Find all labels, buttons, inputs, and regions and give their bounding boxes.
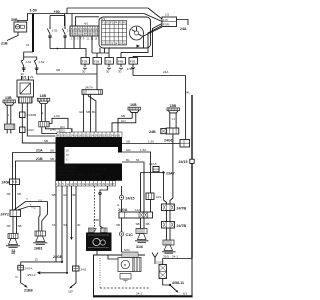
top wire run B (33, 8, 144, 14)
wires to ground G4 (167, 228, 171, 240)
arrow to 21/7 (170, 285, 176, 291)
svg-text:24/7B: 24/7B (177, 207, 187, 211)
siren module 4/28 (86, 218, 112, 251)
svg-text:21B: 21B (36, 157, 43, 161)
svg-text:5/1: 5/1 (101, 17, 106, 21)
A1 stub 2 (79, 36, 81, 44)
svg-text:24Y2: 24Y2 (1, 213, 9, 217)
positive feed bus right (191, 95, 193, 259)
svg-text:GN: GN (60, 125, 65, 129)
svg-text:F2B: F2B (94, 60, 100, 64)
svg-text:24A: 24A (180, 27, 187, 31)
fuse F4 (117, 52, 125, 69)
fuse F5 (127, 56, 138, 75)
svg-text:17: 17 (109, 139, 113, 143)
wire C1C down (121, 236, 123, 252)
siren drive motor M (118, 248, 141, 282)
diagonal wire run B to U1 (144, 14, 162, 22)
svg-text:23A7: 23A7 (166, 172, 175, 176)
inline connector 24/10 (20, 112, 36, 118)
wire H3 pin2 to ECU (112, 118, 136, 132)
svg-text:24/2: 24/2 (81, 267, 87, 271)
svg-text:4/54-2: 4/54-2 (27, 273, 36, 277)
ECU top pin row (50, 128, 122, 138)
wire C5C to junction 4/58 (163, 279, 184, 287)
wire to ballast arrow (21, 262, 26, 286)
splice S24 (119, 195, 134, 200)
horn H1 (3, 96, 16, 134)
svg-text:C1C: C1C (126, 233, 134, 237)
dashed wire inside box (100, 287, 150, 289)
clock symbol in B1 (130, 26, 144, 40)
svg-text:4/28: 4/28 (93, 218, 99, 222)
svg-text:15B: 15B (170, 104, 177, 108)
svg-text:24GA: 24GA (118, 208, 128, 212)
svg-text:13B: 13B (5, 96, 12, 100)
switch SW1 (21, 57, 32, 72)
svg-text:30: 30 (118, 70, 122, 74)
wire H2 pin2 to ECU (45, 127, 72, 132)
svg-text:54: 54 (136, 158, 140, 162)
ground G2 (33, 231, 47, 251)
ECU wire to siren splice (100, 186, 108, 229)
wire ECU left pin 21A (22, 142, 55, 144)
wire 15 rail (21, 255, 63, 263)
wire U1 to 24A (177, 20, 189, 26)
svg-text:16B: 16B (130, 103, 137, 107)
svg-text:30: 30 (82, 70, 86, 74)
svg-text:RELAY FUSE BOX: RELAY FUSE BOX (78, 173, 102, 177)
svg-text:24/7A: 24/7A (85, 86, 93, 90)
svg-text:19: 19 (116, 139, 120, 143)
svg-text:SB: SB (121, 114, 125, 118)
switch output rail (50, 49, 86, 58)
wire splice down (121, 200, 123, 212)
svg-text:24/7B: 24/7B (177, 224, 187, 228)
B1 bottom drops (100, 48, 105, 53)
connector 24/7B upper (162, 204, 187, 211)
svg-text:SIREN: SIREN (88, 237, 96, 241)
svg-text:BL: BL (92, 110, 96, 114)
svg-text:31/5: 31/5 (163, 255, 169, 259)
svg-text:14B: 14B (40, 94, 47, 98)
svg-text:6/1: 6/1 (183, 292, 188, 296)
svg-text:Y: Y (26, 197, 28, 201)
svg-text:15: 15 (102, 139, 106, 143)
wires below K1 (22, 103, 55, 143)
svg-text:30: 30 (77, 223, 81, 227)
svg-text:SB: SB (50, 157, 54, 161)
connector U1 (162, 13, 177, 27)
wire to arrow2 (72, 271, 77, 287)
svg-text:SB: SB (18, 224, 22, 228)
wires between connectors (167, 211, 171, 222)
svg-text:1/2: 1/2 (165, 13, 170, 17)
A1 feed from top (64, 14, 66, 27)
diagonal wire from U1 pin3 (109, 27, 162, 48)
svg-text:2/46: 2/46 (50, 128, 56, 132)
wire B1 stub to A1 (76, 17, 100, 26)
wire junction 23A (141, 171, 175, 200)
diagonal wire from U1 pin2 (121, 26, 162, 53)
relay K1 connector strip (19, 97, 32, 103)
wire S1 to ground lead 21B (7, 32, 18, 41)
svg-text:BL: BL (126, 158, 130, 162)
ECU bottom wire 3 (71, 186, 73, 239)
svg-text:24GC: 24GC (27, 128, 36, 132)
svg-text:30B: 30B (11, 18, 18, 22)
connector 24B (149, 128, 179, 134)
svg-text:16: 16 (26, 43, 30, 47)
svg-text:161: 161 (61, 130, 66, 133)
svg-text:SB: SB (146, 222, 150, 226)
svg-text:F5B: F5B (130, 60, 136, 64)
wire 30 drop with connector (73, 266, 87, 271)
svg-text:15: 15 (52, 223, 56, 227)
svg-text:F3B: F3B (106, 60, 112, 64)
diagonal wire to U1 (148, 8, 162, 19)
fuse F3 (105, 48, 113, 69)
svg-text:SB: SB (86, 110, 90, 114)
dotted wire inside box (99, 258, 101, 288)
inline connector 24Y2 (1, 210, 21, 217)
svg-text:SB: SB (50, 149, 54, 153)
wire junction dot feed (164, 200, 167, 204)
inline component 24/15 (149, 162, 159, 172)
ground G2 wire 1 (26, 202, 48, 232)
combi instrument box B1 (99, 17, 151, 48)
wire to ground pair (141, 173, 145, 229)
ground G2 wire 2 (29, 207, 41, 232)
svg-text:P2(R): P2(R) (163, 24, 169, 27)
svg-text:14/1: 14/1 (135, 208, 141, 212)
wire 24A run right (133, 75, 186, 77)
svg-text:1-50: 1-50 (140, 148, 146, 152)
ECU label text rows (57, 166, 107, 177)
central electronic module body (56, 137, 123, 181)
inline connector 24GB (2, 179, 20, 185)
inline connector 24GC (20, 127, 36, 133)
svg-text:21B8: 21B8 (24, 289, 33, 293)
wire 24/7A drop 2 (90, 94, 92, 132)
ground G3 (135, 229, 149, 250)
svg-text:1 2: 1 2 (172, 117, 176, 121)
svg-text:SB: SB (136, 222, 140, 226)
wire ECU left 21A label (13, 149, 56, 180)
relay K1 (17, 76, 34, 97)
svg-text:24/15: 24/15 (149, 162, 157, 166)
connector row 24GA (118, 208, 153, 218)
svg-text:1-51: 1-51 (52, 29, 58, 33)
svg-text:21A: 21A (36, 149, 43, 153)
svg-text:15: 15 (11, 251, 15, 255)
svg-text:F1B: F1B (82, 60, 88, 64)
splice feeds into 24Y2 (14, 202, 29, 211)
svg-text:24-1: 24-1 (136, 292, 142, 296)
ECU dashed wire (94, 186, 96, 228)
svg-text:1-50: 1-50 (148, 140, 154, 144)
svg-text:30: 30 (21, 72, 25, 76)
svg-text:SB: SB (116, 223, 120, 227)
inline connector 24/7A (82, 86, 102, 95)
wire siren to box (96, 251, 98, 255)
svg-text:13: 13 (95, 139, 99, 143)
svg-text:4/58-11: 4/58-11 (172, 281, 184, 285)
connector box 14/1 (146, 193, 162, 200)
wire run 1-50 to fuse feed (47, 73, 97, 75)
switch SW2 (34, 59, 47, 75)
ground G1 (6, 234, 20, 254)
wire 54 rail (27, 271, 68, 277)
svg-text:30: 30 (106, 70, 110, 74)
svg-text:24A: 24A (163, 70, 168, 74)
splice dot (99, 192, 102, 195)
A1 stub 1 (73, 36, 75, 44)
svg-text:1-50: 1-50 (54, 114, 60, 118)
wire 14/1 down (150, 200, 152, 213)
svg-text:24GE: 24GE (53, 255, 63, 259)
switch SW3 (47, 16, 58, 49)
splice C1C (119, 232, 133, 237)
svg-text:21B: 21B (1, 42, 8, 46)
wire ECU right 1 to 24GD (122, 139, 190, 148)
wire ECU right 2 (122, 152, 151, 193)
heavy feed wire bus (32, 14, 34, 52)
fuse pin labels (21, 70, 122, 77)
svg-text:GN: GN (121, 119, 126, 123)
svg-text:24/15: 24/15 (126, 197, 135, 201)
connector 24/7B lower (162, 222, 187, 229)
inline connector on bus (190, 159, 194, 163)
ECU bottom wire 4 (75, 186, 77, 266)
diagonal wire 24A feed (133, 24, 162, 57)
svg-text:2/1: 2/1 (22, 76, 27, 80)
svg-text:24B: 24B (149, 130, 156, 134)
fuse holder 24/7A (18, 265, 33, 270)
wires to ground G1 (13, 217, 17, 234)
svg-text:4/1: 4/1 (84, 22, 89, 26)
svg-text:15/1 4/5: 15/1 4/5 (96, 167, 107, 171)
wire C5C to right edge (163, 259, 192, 265)
svg-text:SB: SB (126, 140, 130, 144)
relay K1 top pins (22, 76, 29, 80)
siren arrow end (93, 229, 96, 232)
svg-text:31/6: 31/6 (136, 245, 143, 249)
svg-text:24-1: 24-1 (172, 255, 178, 259)
svg-text:1-52: 1-52 (38, 60, 44, 64)
ground G4 (162, 240, 176, 259)
wire ECU left 21B (16, 157, 56, 179)
connector C5C (156, 261, 167, 279)
svg-text:16B1: 16B1 (34, 247, 43, 251)
svg-text:Y/1: Y/1 (38, 199, 43, 203)
wire 24/7A drop 1 (83, 94, 85, 132)
connector strip A1 (70, 22, 100, 37)
horn H2 (37, 94, 50, 127)
ECU white pin numbers top (58, 139, 120, 143)
A1 stub drops (74, 41, 92, 53)
ground wires left (13, 185, 16, 211)
svg-text:17/5: 17/5 (163, 19, 168, 22)
ECU bottom wire 2 (62, 186, 67, 273)
fuse F1 (81, 58, 89, 70)
svg-text:11: 11 (88, 139, 91, 143)
wire 24/7A dogleg drop (88, 94, 96, 132)
B1 bottom arrow (137, 45, 141, 48)
junction dot (56, 48, 58, 50)
svg-text:1-50: 1-50 (30, 9, 37, 13)
wire H2 to node (49, 118, 68, 132)
ECU bottom wire 1 (55, 186, 57, 262)
wire 24A down to 24GD joins (185, 76, 187, 140)
svg-text:24/7A: 24/7A (25, 266, 33, 270)
wire H4 down (170, 134, 173, 204)
fuse feed rail (92, 52, 109, 54)
svg-text:6/22: 6/22 (124, 248, 130, 252)
horn H4 (167, 104, 180, 128)
top wire run A (67, 7, 148, 9)
svg-text:24/15: 24/15 (179, 160, 188, 164)
svg-text:SB: SB (7, 224, 11, 228)
ignition switch S1 terminal 30 (11, 18, 27, 32)
svg-text:31F: 31F (68, 290, 73, 294)
wire from S1 to node 1-50 (18, 14, 33, 23)
svg-text:SB: SB (52, 193, 56, 197)
arrow terminal (24, 285, 27, 288)
horn H3 (128, 103, 141, 118)
wire into motor from top (108, 255, 118, 259)
subsystem boundary box (94, 255, 146, 296)
wire H3 to ECU pin (118, 118, 132, 132)
svg-text:F4B: F4B (118, 60, 124, 64)
svg-text:14/1: 14/1 (156, 195, 162, 199)
wire H2 pin to ECU (42, 127, 57, 134)
ECU wire to splice chain (121, 186, 123, 195)
svg-text:21/7: 21/7 (170, 294, 176, 298)
svg-text:15: 15 (35, 258, 39, 262)
switch SW4 (62, 16, 73, 49)
wire drop to A1 (71, 14, 73, 27)
svg-text:SB: SB (7, 192, 11, 196)
wire jog to switch pair (24, 52, 37, 59)
wire ECU right 3 (122, 162, 144, 173)
antenna symbol (152, 253, 158, 265)
svg-text:54: 54 (64, 223, 68, 227)
svg-text:C5C: C5C (156, 261, 163, 265)
svg-text:17B: 17B (127, 67, 132, 71)
node +50 crossbar (50, 15, 65, 17)
svg-text:Y/2: Y/2 (31, 206, 36, 210)
svg-text:BL: BL (73, 193, 77, 197)
fuse F2 (93, 53, 101, 90)
svg-text:24/10B: 24/10B (27, 113, 37, 117)
svg-text:1-51: 1-51 (25, 60, 31, 64)
ECU bottom pin row (56, 181, 116, 186)
svg-text:24GD: 24GD (164, 139, 174, 143)
wire below 24GA (121, 218, 123, 232)
inline component 24/15 overlay (153, 167, 159, 172)
A1 stub 3 (91, 36, 93, 41)
svg-text:MODULE 24/7: MODULE 24/7 (57, 173, 76, 177)
svg-text:29: 29 (30, 75, 34, 79)
svg-text:SB: SB (17, 192, 21, 196)
svg-text:SB: SB (56, 68, 60, 72)
svg-text:SB: SB (44, 139, 48, 143)
